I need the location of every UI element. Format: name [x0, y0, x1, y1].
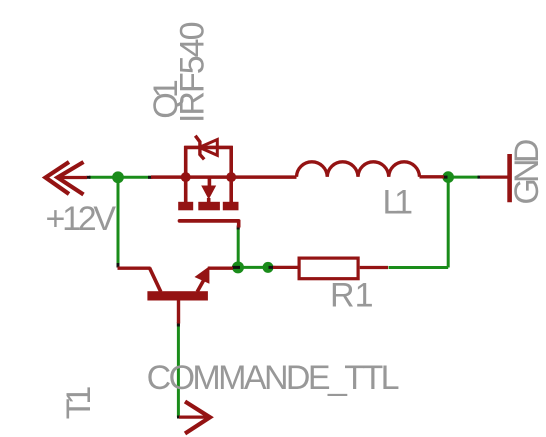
svg-text:COMMANDE_TTL: COMMANDE_TTL	[147, 359, 400, 397]
svg-text:GND: GND	[508, 139, 546, 205]
svg-text:+12V: +12V	[46, 200, 117, 238]
svg-text:T1: T1	[60, 386, 98, 420]
svg-text:R1: R1	[330, 277, 374, 315]
svg-text:IRF540: IRF540	[173, 22, 211, 124]
svg-text:L1: L1	[383, 183, 414, 221]
